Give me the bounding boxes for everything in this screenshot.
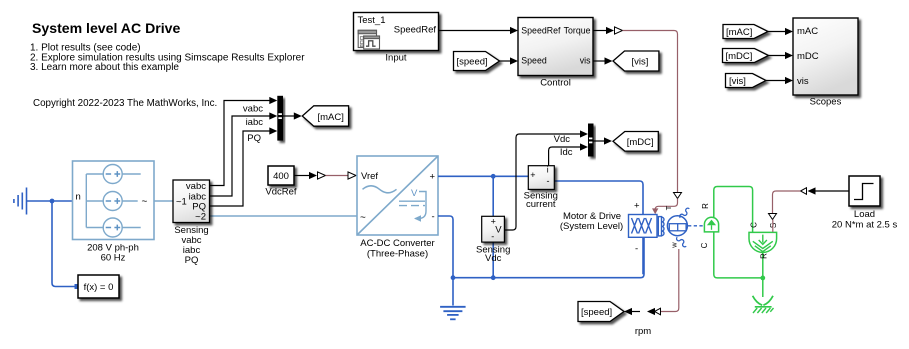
svg-text:-: - [547, 176, 550, 186]
svg-text:vabc: vabc [186, 181, 206, 192]
svg-text:~: ~ [142, 197, 148, 208]
svg-text:w: w [670, 242, 679, 249]
svg-text:C: C [750, 222, 759, 228]
svg-text:V: V [411, 188, 418, 199]
svg-text:+: + [634, 201, 640, 212]
svg-text:iabc: iabc [246, 117, 264, 128]
svg-text:Idc: Idc [560, 147, 573, 158]
svg-text:Torque: Torque [564, 26, 591, 36]
svg-text:~1: ~1 [176, 197, 187, 208]
svg-text:VdcRef: VdcRef [265, 187, 297, 198]
svg-text:i: i [547, 165, 549, 175]
svg-text:Input: Input [385, 53, 406, 64]
svg-text:(System Level): (System Level) [560, 221, 623, 232]
svg-text:[mDC]: [mDC] [726, 51, 753, 62]
svg-text:vis: vis [797, 76, 809, 87]
svg-text:Scopes: Scopes [810, 97, 842, 108]
svg-text:3. Learn more about this examp: 3. Learn more about this example [30, 62, 179, 73]
svg-text:SpeedRef: SpeedRef [521, 26, 561, 36]
svg-text:[vis]: [vis] [729, 76, 746, 87]
svg-text:+: + [430, 172, 436, 183]
svg-text:[vis]: [vis] [632, 57, 649, 68]
svg-text:R: R [701, 203, 710, 209]
svg-text:R: R [760, 253, 769, 259]
svg-text:[mAC]: [mAC] [726, 27, 752, 38]
svg-text:20 N*m at 2.5 s: 20 N*m at 2.5 s [832, 220, 898, 231]
svg-text:mDC: mDC [797, 51, 819, 62]
svg-text:C: C [700, 242, 709, 248]
svg-text:f(x) = 0: f(x) = 0 [84, 282, 114, 293]
svg-text:Test_1: Test_1 [358, 15, 386, 26]
svg-text:[mDC]: [mDC] [627, 137, 654, 148]
svg-text:~: ~ [360, 213, 366, 224]
svg-text:400: 400 [273, 171, 289, 182]
svg-text:vabc: vabc [243, 104, 263, 115]
svg-text:[speed]: [speed] [581, 307, 612, 318]
svg-text:Vdc: Vdc [485, 253, 502, 264]
svg-text:+: + [530, 170, 535, 180]
svg-text:AC-DC Converter: AC-DC Converter [360, 238, 434, 249]
svg-text:current: current [526, 199, 556, 210]
svg-text:Load: Load [854, 209, 875, 220]
svg-text:SpeedRef: SpeedRef [394, 25, 437, 36]
svg-text:mAC: mAC [797, 26, 818, 37]
svg-text:T: T [664, 205, 673, 210]
svg-text:vis: vis [580, 56, 591, 66]
svg-text:60 Hz: 60 Hz [101, 253, 126, 264]
svg-text:-: - [432, 212, 435, 223]
svg-text:Speed: Speed [521, 56, 547, 66]
svg-text:(Three-Phase): (Three-Phase) [367, 249, 428, 260]
svg-text:[mAC]: [mAC] [318, 112, 344, 123]
svg-text:Control: Control [540, 78, 571, 89]
svg-text:~2: ~2 [195, 212, 206, 223]
svg-text:S: S [769, 223, 778, 228]
svg-text:PQ: PQ [185, 255, 199, 266]
svg-text:PQ: PQ [247, 133, 261, 144]
svg-text:[speed]: [speed] [457, 57, 488, 68]
svg-text:rpm: rpm [635, 326, 651, 337]
svg-text:n: n [76, 192, 81, 203]
svg-text:Copyright 2022-2023 The MathWo: Copyright 2022-2023 The MathWorks, Inc. [33, 98, 217, 109]
svg-text:Vref: Vref [361, 171, 378, 182]
svg-text:Vdc: Vdc [554, 134, 571, 145]
svg-text:-: - [635, 244, 638, 255]
svg-text:System level AC Drive: System level AC Drive [32, 20, 180, 36]
svg-text:V: V [495, 224, 502, 235]
svg-text:-: - [491, 231, 494, 241]
